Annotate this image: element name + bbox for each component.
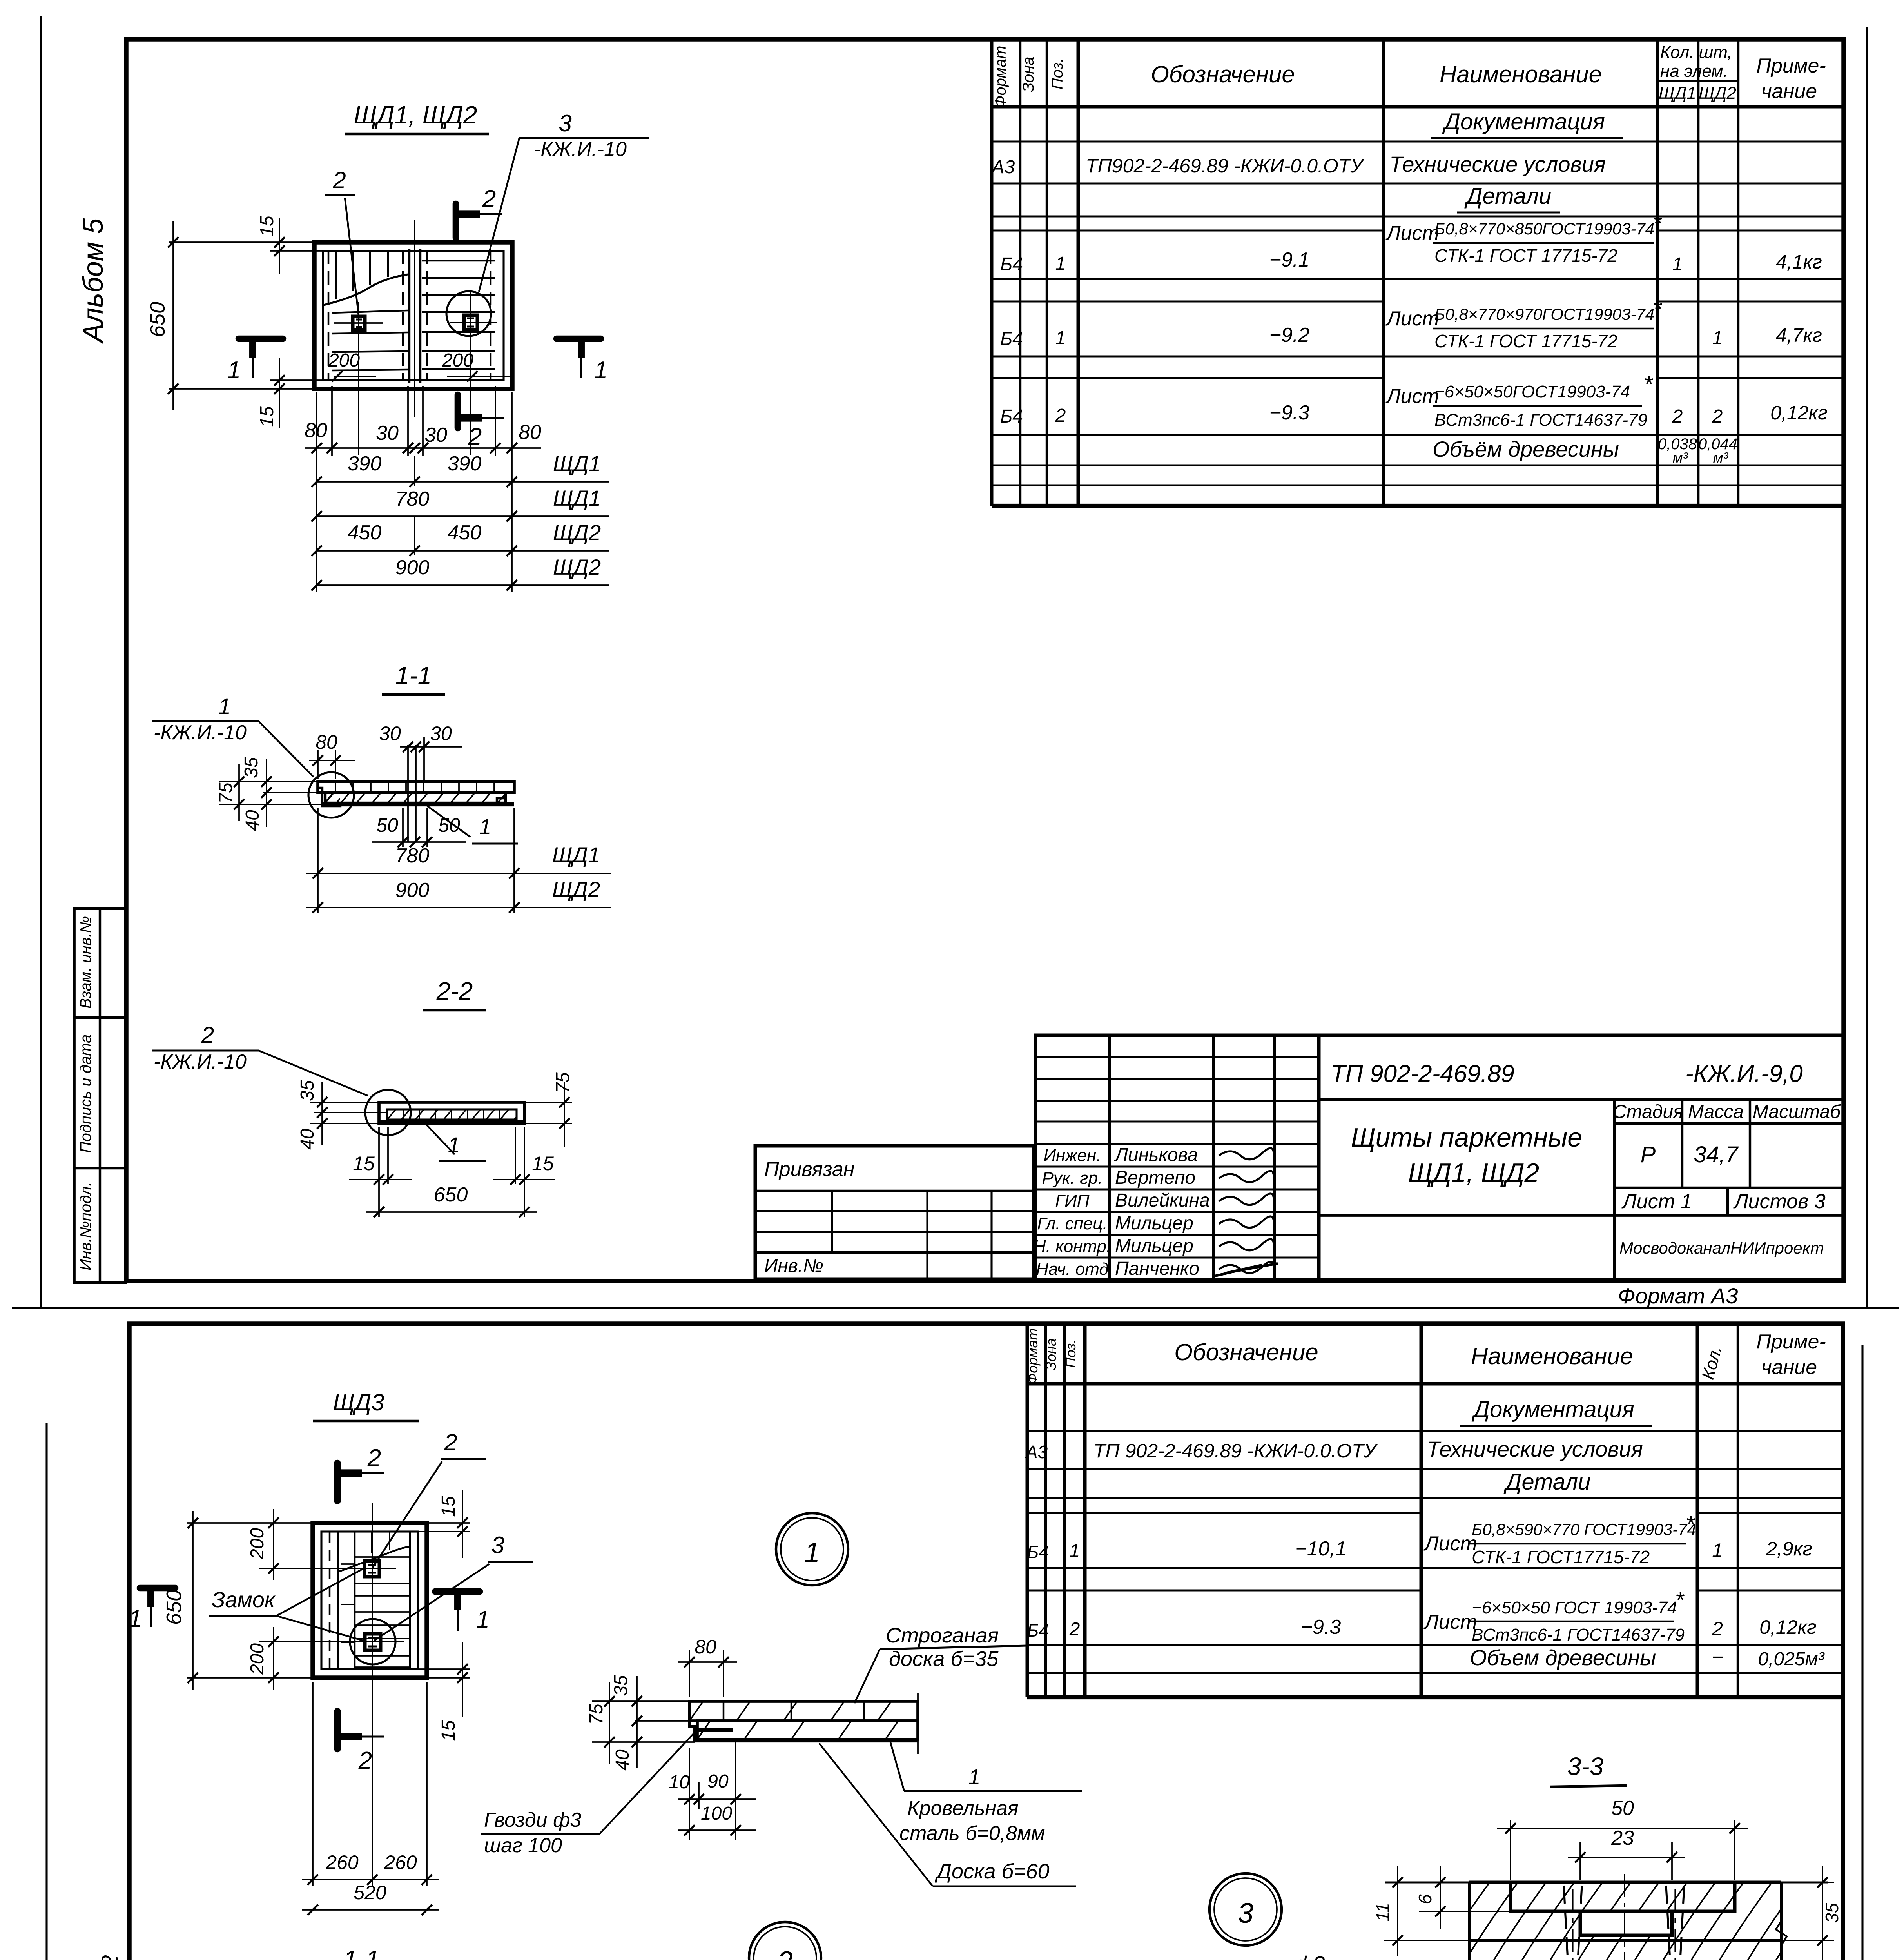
svg-text:Альбом 5: Альбом 5 <box>78 218 109 344</box>
section 2-2 bar profile <box>379 1102 524 1123</box>
svg-text:шаг 100: шаг 100 <box>484 1834 562 1857</box>
svg-text:100: 100 <box>701 1803 732 1824</box>
svg-text:1: 1 <box>1070 1541 1080 1561</box>
svg-text:520: 520 <box>354 1882 386 1904</box>
plan left panel board joints <box>335 251 337 299</box>
svg-text:−9.2: −9.2 <box>1269 324 1310 347</box>
svg-text:80: 80 <box>695 1636 716 1658</box>
svg-text:Масса: Масса <box>1688 1102 1744 1122</box>
svg-text:Технические условия: Технические условия <box>1427 1437 1643 1461</box>
svg-text:ЩД2: ЩД2 <box>553 520 601 545</box>
svg-text:Инв.№подл.: Инв.№подл. <box>77 1182 94 1270</box>
svg-text:ЩД2: ЩД2 <box>553 555 601 579</box>
svg-text:ТП902-2-469.89 -КЖИ-0.0.ОТУ: ТП902-2-469.89 -КЖИ-0.0.ОТУ <box>1086 155 1365 177</box>
svg-text:Гл. спец.: Гл. спец. <box>1037 1214 1107 1233</box>
svg-text:2: 2 <box>777 1946 793 1960</box>
svg-text:Наименование: Наименование <box>1440 61 1602 87</box>
svg-text:Р: Р <box>1641 1142 1656 1167</box>
svg-text:1-1: 1-1 <box>395 661 432 690</box>
ЩД3 plan verticals upper <box>354 1532 356 1669</box>
svg-text:10: 10 <box>669 1772 690 1793</box>
svg-text:Детали: Детали <box>1503 1469 1591 1495</box>
svg-text:Стадия: Стадия <box>1613 1102 1683 1122</box>
detail 1 dims 10-90-100 <box>698 1782 700 1809</box>
sheet1 title block signature grid <box>1035 1035 1319 1280</box>
section 2-2 dims 15 below <box>378 1127 380 1217</box>
svg-text:3: 3 <box>559 110 571 136</box>
sheet 2 paper left edge <box>45 1423 47 1960</box>
svg-text:650: 650 <box>146 302 169 337</box>
plan dim 15 top-left <box>270 250 323 252</box>
svg-text:1-1: 1-1 <box>343 1945 380 1960</box>
svg-text:Технические условия: Технические условия <box>1389 152 1606 176</box>
plan right panel dashed edge lines <box>426 251 428 380</box>
svg-text:−9.3: −9.3 <box>1301 1616 1341 1639</box>
svg-text:650: 650 <box>434 1183 468 1206</box>
plan inner border <box>323 251 504 380</box>
svg-text:Документация: Документация <box>1442 109 1605 134</box>
ЩД3 dim 520 <box>302 1909 439 1911</box>
section marker 1 right <box>557 336 601 342</box>
svg-text:Мильцер: Мильцер <box>1115 1213 1193 1234</box>
svg-text:1: 1 <box>1712 1539 1723 1561</box>
svg-text:ЩД2: ЩД2 <box>552 877 600 902</box>
svg-text:Лист: Лист <box>1423 1532 1477 1555</box>
detail 1 board profile <box>689 1701 918 1721</box>
svg-text:1: 1 <box>1672 254 1683 275</box>
svg-text:Вилейкина: Вилейкина <box>1115 1190 1210 1211</box>
section 3-3 dim 35 right <box>1781 1882 1834 1883</box>
svg-text:Документация: Документация <box>1471 1397 1634 1422</box>
plan lock square left <box>353 316 365 330</box>
svg-text:75: 75 <box>586 1704 607 1725</box>
svg-text:ЩД2: ЩД2 <box>1699 83 1736 103</box>
svg-text:чание: чание <box>1761 80 1817 103</box>
svg-text:м³: м³ <box>1713 450 1729 466</box>
section 1-1 center joint lines <box>407 745 409 804</box>
svg-text:ЩД3: ЩД3 <box>333 1389 384 1416</box>
svg-text:3: 3 <box>491 1532 504 1558</box>
sheet 2 paper right edge <box>1861 1345 1863 1960</box>
svg-text:Б4: Б4 <box>1027 1542 1049 1562</box>
svg-text:Б0,8×590×770 ГОСТ19903-74: Б0,8×590×770 ГОСТ19903-74 <box>1472 1520 1696 1539</box>
svg-text:3-3: 3-3 <box>1567 1752 1604 1780</box>
section 1-1 dim 900 ЩД2 <box>306 907 611 908</box>
ЩД3 dim 200 bottom-left <box>259 1641 345 1642</box>
svg-text:ф8: ф8 <box>1295 1952 1325 1960</box>
svg-text:СТК-1 ГОСТ 17715-72: СТК-1 ГОСТ 17715-72 <box>1434 245 1617 266</box>
svg-text:1: 1 <box>129 1605 142 1632</box>
svg-text:1: 1 <box>804 1537 820 1568</box>
detail 1 dims 35/75/40 <box>592 1700 689 1702</box>
svg-text:Наименование: Наименование <box>1471 1343 1633 1369</box>
svg-text:30: 30 <box>424 424 447 446</box>
svg-text:Объём древесины: Объём древесины <box>1433 437 1619 461</box>
section 3-3 pocket ф20 <box>1580 1911 1672 1935</box>
svg-text:ВСт3пс6-1 ГОСТ14637-79: ВСт3пс6-1 ГОСТ14637-79 <box>1434 410 1647 430</box>
section marker 1 left <box>239 336 283 342</box>
svg-text:Взам. инв.№: Взам. инв.№ <box>77 916 94 1009</box>
svg-text:Листов 3: Листов 3 <box>1733 1190 1826 1213</box>
svg-text:35: 35 <box>611 1675 631 1696</box>
svg-text:−10,1: −10,1 <box>1295 1537 1347 1560</box>
svg-text:А3: А3 <box>991 157 1015 178</box>
svg-text:3: 3 <box>1238 1898 1253 1929</box>
svg-text:Доска б=60: Доска б=60 <box>935 1860 1050 1883</box>
svg-text:2: 2 <box>367 1445 381 1472</box>
svg-text:ТП 902-2-469.89: ТП 902-2-469.89 <box>1331 1060 1514 1087</box>
section 3-3 screws dashed <box>1564 1886 1572 1960</box>
section 1-1 right end step <box>497 782 514 803</box>
svg-text:Лист: Лист <box>1385 385 1439 408</box>
svg-text:сталь б=0,8мм: сталь б=0,8мм <box>899 1822 1045 1845</box>
svg-text:Б4: Б4 <box>1027 1620 1049 1641</box>
svg-text:30: 30 <box>430 722 452 744</box>
svg-text:900: 900 <box>395 556 430 579</box>
svg-text:200: 200 <box>247 1643 268 1675</box>
svg-text:Поз.: Поз. <box>1049 58 1066 90</box>
svg-text:Кровельная: Кровельная <box>907 1797 1019 1820</box>
svg-text:780: 780 <box>395 488 430 510</box>
svg-text:Инв.№: Инв.№ <box>764 1256 823 1276</box>
svg-text:0,12кг: 0,12кг <box>1770 402 1828 424</box>
section 3-3 wood block <box>1385 1881 1828 1883</box>
svg-text:Замок: Замок <box>212 1587 276 1612</box>
svg-text:260: 260 <box>384 1851 417 1873</box>
section 1-1 board profile <box>318 782 514 793</box>
svg-text:23883-05 22: 23883-05 22 <box>97 1955 123 1960</box>
svg-text:2: 2 <box>332 167 346 193</box>
section 1-1 left hook <box>318 782 340 806</box>
section 3-3 dim 50 top <box>1510 1820 1511 1880</box>
section 2-2 dim 650 <box>366 1211 537 1213</box>
svg-text:ЩД1: ЩД1 <box>553 486 601 510</box>
svg-text:35: 35 <box>297 1080 318 1101</box>
svg-text:-КЖ.И.-9,0: -КЖ.И.-9,0 <box>1685 1060 1803 1087</box>
svg-text:15: 15 <box>257 216 277 237</box>
section 2-2 dim 35/40 left <box>310 1102 379 1103</box>
svg-text:0,025м³: 0,025м³ <box>1758 1649 1825 1670</box>
svg-text:50: 50 <box>438 814 460 836</box>
svg-text:2-2: 2-2 <box>436 977 473 1005</box>
svg-text:200: 200 <box>442 350 473 371</box>
svg-text:ГИП: ГИП <box>1055 1191 1089 1210</box>
svg-text:200: 200 <box>328 350 360 371</box>
svg-text:1: 1 <box>227 357 241 384</box>
svg-text:-КЖ.И.-10: -КЖ.И.-10 <box>154 1051 247 1073</box>
sheet 2 spec table grid <box>1026 1324 1029 1697</box>
svg-text:6: 6 <box>1415 1894 1435 1904</box>
ЩД3 lock square upper <box>364 1561 379 1577</box>
svg-text:390: 390 <box>348 452 382 475</box>
ЩД3 plan inner border <box>321 1532 418 1669</box>
svg-text:200: 200 <box>247 1528 268 1560</box>
svg-text:Формат: Формат <box>992 46 1009 108</box>
svg-text:ВСт3пс6-1 ГОСТ14637-79: ВСт3пс6-1 ГОСТ14637-79 <box>1472 1625 1685 1644</box>
sheet 2 frame border <box>129 1324 1843 1960</box>
svg-text:40: 40 <box>612 1749 633 1771</box>
svg-text:0,12кг: 0,12кг <box>1759 1616 1817 1638</box>
svg-text:ЩД1, ЩД2: ЩД1, ЩД2 <box>1408 1158 1540 1188</box>
svg-text:Б0,8×770×850ГОСТ19903-74: Б0,8×770×850ГОСТ19903-74 <box>1434 220 1654 238</box>
ЩД3 plan horizontal joints <box>355 1556 410 1558</box>
svg-text:75: 75 <box>216 782 236 804</box>
svg-text:1: 1 <box>594 357 607 384</box>
detail mark 1 circle <box>776 1513 848 1585</box>
sheet 1 paper left edge <box>40 16 42 1307</box>
svg-text:2: 2 <box>1712 406 1723 427</box>
svg-text:Б4: Б4 <box>1000 328 1023 349</box>
svg-text:1: 1 <box>476 1606 490 1633</box>
svg-text:40: 40 <box>297 1129 318 1150</box>
svg-text:ЩД1: ЩД1 <box>1659 83 1696 103</box>
svg-text:900: 900 <box>395 879 430 902</box>
svg-text:30: 30 <box>376 422 399 445</box>
sheet 1 spec table grid <box>990 39 994 506</box>
section 1-1 dim 50-50 below <box>402 808 404 847</box>
svg-text:Лист 1: Лист 1 <box>1621 1190 1692 1213</box>
svg-text:80: 80 <box>316 731 337 753</box>
detail 1 dim 80 <box>689 1650 690 1697</box>
ЩД3 lock square lower with circle <box>365 1634 381 1650</box>
ЩД3 center axis <box>372 1503 373 1886</box>
svg-text:Зона: Зона <box>1020 56 1037 92</box>
sheet 1 frame border <box>126 39 1844 1281</box>
svg-text:2: 2 <box>201 1022 214 1048</box>
section 3-3 dim 11 left <box>1384 1940 1525 1941</box>
plan dim row 900 ЩД2 <box>317 584 609 586</box>
svg-text:Лист: Лист <box>1423 1611 1477 1633</box>
svg-text:30: 30 <box>379 722 401 744</box>
detail mark 3 circle <box>1209 1873 1282 1945</box>
detail 1 left end nail <box>694 1728 733 1732</box>
svg-text:м³: м³ <box>1673 450 1688 466</box>
plan center axis <box>414 220 415 417</box>
detail mark 2 circle <box>749 1922 821 1960</box>
section 1-1 bottom steel line <box>321 802 514 806</box>
svg-text:90: 90 <box>707 1771 729 1792</box>
svg-text:*: * <box>1653 296 1663 322</box>
svg-text:2: 2 <box>1055 405 1066 426</box>
svg-text:−9.1: −9.1 <box>1269 249 1310 271</box>
svg-text:Привязан: Привязан <box>764 1158 854 1181</box>
ЩД3 dim 200 top-left <box>259 1568 347 1569</box>
section marker 2 bottom <box>455 395 461 428</box>
ЩД3 right vertical band <box>409 1532 411 1669</box>
svg-text:*: * <box>1675 1588 1685 1613</box>
svg-text:Щиты паркетные: Щиты паркетные <box>1351 1123 1582 1152</box>
svg-text:780: 780 <box>395 844 430 867</box>
svg-text:15: 15 <box>438 1496 459 1517</box>
svg-text:80: 80 <box>519 421 541 444</box>
svg-text:2,9кг: 2,9кг <box>1766 1538 1812 1560</box>
svg-text:2: 2 <box>1069 1619 1080 1640</box>
section 2-2 detail circle <box>365 1090 411 1135</box>
svg-text:Зона: Зона <box>1043 1338 1059 1370</box>
svg-text:Обозначение: Обозначение <box>1174 1339 1318 1365</box>
svg-text:Инжен.: Инжен. <box>1044 1146 1101 1165</box>
svg-text:Поз.: Поз. <box>1063 1339 1079 1368</box>
svg-text:75: 75 <box>553 1072 573 1093</box>
ЩД3 left vertical band <box>329 1532 331 1669</box>
svg-text:Подпись и дата: Подпись и дата <box>77 1034 94 1153</box>
Привязан box sheet1 <box>755 1146 1034 1279</box>
svg-text:2: 2 <box>468 423 482 450</box>
plan dim chain 80-30-30-80 <box>316 392 317 592</box>
section 3-3 center axis <box>1624 1874 1625 1960</box>
ЩД3 dim 15 top-right <box>427 1522 470 1524</box>
svg-text:*: * <box>1644 372 1654 397</box>
svg-text:1: 1 <box>448 1132 460 1157</box>
svg-text:1: 1 <box>479 814 491 839</box>
ЩД3 section marker 1 right <box>435 1588 480 1595</box>
plan dim row 450-450 ЩД2 <box>317 550 609 552</box>
section marker 2 top <box>453 204 459 238</box>
svg-text:А3: А3 <box>1025 1442 1048 1462</box>
plan left panel horizontal joints <box>332 310 408 313</box>
svg-text:15: 15 <box>438 1720 459 1741</box>
plan dim 650 left <box>169 241 314 243</box>
plan left panel diagonal break line <box>324 274 408 305</box>
svg-text:Гвозди ф3: Гвозди ф3 <box>484 1809 581 1831</box>
svg-text:4,1кг: 4,1кг <box>1776 251 1822 273</box>
svg-text:Вертепо: Вертепо <box>1115 1167 1195 1188</box>
section 2-2 leader 1 <box>425 1123 455 1154</box>
svg-text:260: 260 <box>325 1851 359 1873</box>
ЩД3 dim 260-260 <box>312 1682 314 1886</box>
section 2-2 dim 75 right <box>524 1102 572 1103</box>
svg-text:35: 35 <box>1822 1903 1842 1923</box>
section 1-1 dim 35/75/40 left <box>219 781 318 782</box>
svg-text:1: 1 <box>968 1764 980 1789</box>
table header col-split line Кол.шт <box>1657 80 1738 82</box>
section 3-3 dim 6 left <box>1419 1911 1511 1912</box>
section 1-1 dim 30-30 top <box>400 746 462 748</box>
svg-text:650: 650 <box>162 1590 186 1625</box>
svg-text:Приме-: Приме- <box>1756 1330 1826 1353</box>
plan center stile <box>408 249 410 383</box>
svg-text:2: 2 <box>482 185 496 212</box>
plan right panel horizontal joints <box>422 260 495 262</box>
ЩД3 plan outer rectangle <box>313 1523 427 1678</box>
ЩД3 dim 15 bottom-right <box>418 1668 470 1670</box>
section 1-1 dim 80 top <box>317 750 319 779</box>
svg-text:2: 2 <box>1712 1618 1723 1640</box>
svg-text:40: 40 <box>242 810 263 831</box>
svg-text:−9.3: −9.3 <box>1269 401 1310 424</box>
svg-text:Б4: Б4 <box>1000 254 1023 275</box>
section 1-1 leader 1 bottom <box>427 806 470 837</box>
svg-text:1: 1 <box>1055 253 1066 274</box>
svg-text:390: 390 <box>448 452 482 475</box>
section 3-3 recess for plate <box>1511 1882 1735 1911</box>
svg-text:ЩД1, ЩД2: ЩД1, ЩД2 <box>354 101 477 129</box>
svg-text:50: 50 <box>376 814 398 836</box>
section 1-1 detail circle <box>308 772 354 818</box>
plan lock square right with detail circle <box>464 315 477 330</box>
svg-text:−: − <box>1712 1646 1723 1669</box>
svg-text:1: 1 <box>218 694 231 719</box>
svg-text:СТК-1 ГОСТ 17715-72: СТК-1 ГОСТ 17715-72 <box>1434 331 1617 351</box>
svg-text:Нач. отд: Нач. отд <box>1036 1259 1108 1279</box>
svg-text:−6×50×50ГОСТ19903-74: −6×50×50ГОСТ19903-74 <box>1434 382 1630 401</box>
svg-text:2: 2 <box>444 1429 457 1455</box>
svg-text:1: 1 <box>1712 328 1723 348</box>
svg-text:ЩД1: ЩД1 <box>552 842 600 867</box>
ЩД3 section marker 1 left <box>140 1585 175 1592</box>
svg-text:Б0,8×770×970ГОСТ19903-74: Б0,8×770×970ГОСТ19903-74 <box>1434 305 1654 323</box>
svg-text:*: * <box>1686 1512 1695 1537</box>
sheet 1 left stamp column boxes <box>74 909 126 1283</box>
svg-text:4,7кг: 4,7кг <box>1776 324 1822 346</box>
svg-text:чание: чание <box>1761 1356 1817 1379</box>
svg-text:Мильцер: Мильцер <box>1115 1236 1193 1256</box>
section 1-1 dim 780 ЩД1 <box>317 808 319 913</box>
svg-text:-КЖ.И.-10: -КЖ.И.-10 <box>154 721 247 744</box>
svg-text:2: 2 <box>358 1747 372 1774</box>
svg-text:80: 80 <box>305 419 327 442</box>
svg-text:на элем.: на элем. <box>1660 62 1728 81</box>
svg-text:Панченко: Панченко <box>1115 1258 1199 1279</box>
ЩД3 plan diagonal break <box>338 1547 410 1572</box>
svg-text:СТК-1 ГОСТ17715-72: СТК-1 ГОСТ17715-72 <box>1472 1547 1650 1567</box>
ЩД3 section marker 2 bottom <box>334 1711 341 1749</box>
plan dim row 780 ЩД1 <box>317 515 609 517</box>
sheet1 title block main box <box>1319 1035 1843 1280</box>
svg-text:35: 35 <box>241 757 262 778</box>
svg-text:Б4: Б4 <box>1000 406 1023 427</box>
svg-text:Лист: Лист <box>1385 222 1439 245</box>
ЩД3 section marker 2 top <box>334 1463 341 1501</box>
svg-text:−6×50×50 ГОСТ 19903-74: −6×50×50 ГОСТ 19903-74 <box>1472 1598 1677 1617</box>
svg-text:Объем древесины: Объем древесины <box>1470 1645 1656 1670</box>
svg-text:доска б=35: доска б=35 <box>889 1647 999 1671</box>
svg-text:450: 450 <box>448 521 482 544</box>
section 3-3 dim 23 <box>1579 1842 1581 1880</box>
detail 1 bottom steel line <box>695 1739 918 1742</box>
svg-text:-КЖ.И.-10: -КЖ.И.-10 <box>534 138 627 161</box>
leader to pos 2 (left lock) <box>345 198 359 316</box>
svg-text:Строганая: Строганая <box>886 1624 999 1647</box>
svg-text:Кол. шт,: Кол. шт, <box>1660 43 1732 62</box>
svg-text:Детали: Детали <box>1464 183 1552 209</box>
plan view ЩД1/ЩД2 outer rectangle <box>314 242 512 389</box>
signature squiggles <box>1219 1148 1274 1160</box>
sheet 1 paper right edge <box>1866 27 1868 1307</box>
svg-text:Масштаб: Масштаб <box>1753 1102 1841 1122</box>
svg-text:Рук. гр.: Рук. гр. <box>1042 1169 1103 1188</box>
svg-text:15: 15 <box>353 1152 375 1174</box>
svg-text:23: 23 <box>1611 1827 1634 1849</box>
svg-text:ЩД1: ЩД1 <box>553 451 601 476</box>
svg-text:Н. контр.: Н. контр. <box>1034 1237 1112 1256</box>
sheet 1 paper bottom edge <box>12 1307 1899 1309</box>
plan left panel dashed edge lines <box>328 251 330 380</box>
svg-text:2: 2 <box>1672 406 1683 427</box>
svg-text:34,7: 34,7 <box>1694 1142 1739 1167</box>
svg-text:1: 1 <box>1055 328 1066 348</box>
svg-text:Линькова: Линькова <box>1114 1145 1198 1165</box>
svg-text:15: 15 <box>532 1152 554 1174</box>
ЩД3 dim 650 left <box>187 1522 313 1524</box>
svg-text:11: 11 <box>1373 1903 1393 1922</box>
svg-text:Обозначение: Обозначение <box>1151 61 1295 87</box>
svg-text:*: * <box>1653 211 1663 236</box>
plan dim 15 bottom-left <box>270 379 323 381</box>
svg-text:МосводоканалНИИпроект: МосводоканалНИИпроект <box>1619 1239 1824 1257</box>
detail 1 right end ext <box>917 1693 919 1754</box>
svg-text:Формат А3: Формат А3 <box>1618 1283 1738 1308</box>
